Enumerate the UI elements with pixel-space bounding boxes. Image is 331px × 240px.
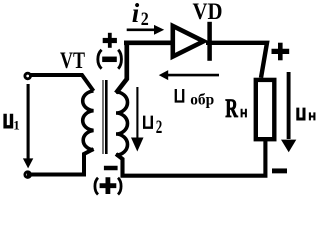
label u2: [144, 116, 162, 138]
svg-text:2: 2: [156, 117, 163, 138]
wire primary bottom lead and bottom-left wire: [27, 149, 94, 175]
label i2: [132, 0, 149, 30]
svg-text:1: 1: [13, 117, 20, 132]
label u1: [5, 114, 20, 133]
voltage arrow u2: [131, 87, 144, 152]
wire secondary bottom lead, bottom wire, resistor bottom lead: [116, 140, 265, 176]
terminal bottom-left input: [25, 172, 31, 178]
minus mark secondary bottom: [104, 166, 118, 171]
terminal top-left input: [25, 73, 31, 79]
reverse voltage arrow u_obr: [159, 70, 219, 80]
label u_obr: [176, 89, 214, 108]
polarity label (+) secondary bottom: [95, 177, 121, 194]
wire diode to top-right corner, slanted drop to resistor: [206, 43, 267, 78]
current arrow i2: [127, 25, 165, 35]
plus mark above (-) secondary top: [103, 38, 117, 43]
wire secondary top lead to diode: [116, 43, 172, 93]
transformer core: [103, 80, 106, 154]
svg-text:обр: обр: [190, 91, 214, 108]
transformer secondary winding: [116, 92, 128, 155]
label Rn: [225, 94, 246, 123]
polarity label (-) secondary top: [98, 50, 122, 69]
transformer VT primary winding: [83, 91, 94, 150]
svg-text:2: 2: [141, 9, 149, 30]
wire top-left to transformer primary: [30, 75, 94, 91]
voltage arrow u_n: [281, 72, 296, 152]
diode VD triangle (anode): [173, 26, 204, 57]
plus mark at resistor top: [272, 49, 290, 54]
svg-text:VT: VT: [60, 48, 85, 73]
minus mark at resistor bottom: [272, 168, 287, 173]
resistor Rn body: [256, 80, 274, 139]
voltage arrow u1: [23, 84, 33, 168]
svg-text:R: R: [225, 94, 238, 123]
label u_n: [298, 108, 315, 121]
diode VD cathode bar: [207, 22, 212, 61]
svg-text:i: i: [132, 0, 140, 28]
svg-text:VD: VD: [193, 0, 223, 24]
